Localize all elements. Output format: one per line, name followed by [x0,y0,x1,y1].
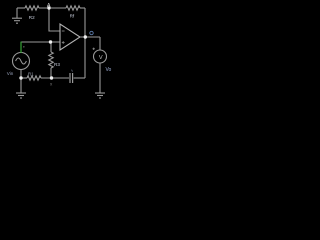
svg-text:A: A [47,3,51,9]
svg-text:R1: R1 [28,72,34,77]
svg-text:Vin: Vin [7,71,14,76]
svg-text:V: V [99,55,103,61]
svg-text:Rf: Rf [70,14,75,19]
svg-text:R2: R2 [29,15,35,20]
svg-text:R3: R3 [54,62,60,67]
svg-text:Vo: Vo [106,67,112,73]
